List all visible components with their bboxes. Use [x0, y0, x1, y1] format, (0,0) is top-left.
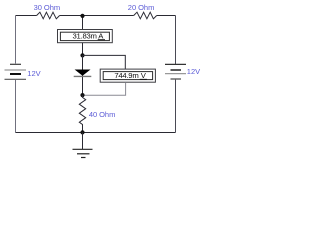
wire top-left segment: [16, 15, 37, 17]
node A junction dot (diode anode): [80, 53, 84, 57]
svg-text:Ohm: Ohm: [44, 3, 60, 12]
resistor R1 30 Ohm zigzag: [37, 12, 60, 19]
label R1 30 Ohm: [34, 3, 61, 12]
battery V1 12V left: [5, 64, 27, 79]
wire right vertical upper: [175, 16, 177, 65]
wire top middle segment: [60, 15, 134, 17]
wire left vertical upper: [15, 16, 17, 64]
diode D1: [74, 70, 92, 77]
node C junction dot (bottom): [80, 130, 84, 134]
resistor R3 40 Ohm vertical zigzag: [79, 95, 85, 132]
wire top-right segment: [157, 15, 176, 17]
ground: [73, 133, 93, 158]
node B junction dot (diode cathode): [80, 93, 84, 97]
ammeter U1 reading text: [73, 32, 105, 41]
label V2 12V: [187, 67, 200, 76]
node junction dot top: [80, 14, 84, 18]
wire left vertical lower: [15, 80, 17, 133]
label V1 12V: [27, 69, 40, 78]
svg-text:744.9m: 744.9m: [114, 71, 138, 80]
wire ammeter to node A: [82, 43, 84, 56]
svg-text:20: 20: [128, 3, 136, 12]
svg-text:12V: 12V: [27, 69, 40, 78]
wire bottom horizontal: [16, 132, 176, 134]
svg-text:31.83m: 31.83m: [73, 32, 97, 41]
ammeter U1 box: [58, 30, 113, 43]
wire ammeter drop from top: [82, 16, 84, 30]
svg-text:12V: 12V: [187, 67, 200, 76]
label R3 40 Ohm: [89, 110, 115, 119]
battery V2 12V right: [165, 64, 186, 79]
svg-text:Ohm: Ohm: [138, 3, 154, 12]
resistor R2 20 Ohm zigzag: [134, 12, 157, 19]
wire voltmeter bottom to node B: [83, 82, 126, 95]
svg-text:Ohm: Ohm: [99, 110, 115, 119]
label R2 20 Ohm: [128, 3, 155, 12]
wire node A to voltmeter top: [83, 55, 126, 69]
voltmeter U2 box: [100, 69, 155, 82]
svg-text:A: A: [98, 32, 104, 41]
svg-text:30: 30: [34, 3, 42, 12]
svg-text:V: V: [141, 71, 147, 80]
wire right vertical lower: [175, 80, 177, 133]
voltmeter U2 reading text: [114, 71, 147, 80]
svg-text:40: 40: [89, 110, 97, 119]
wire diode branch vertical: [82, 55, 84, 95]
